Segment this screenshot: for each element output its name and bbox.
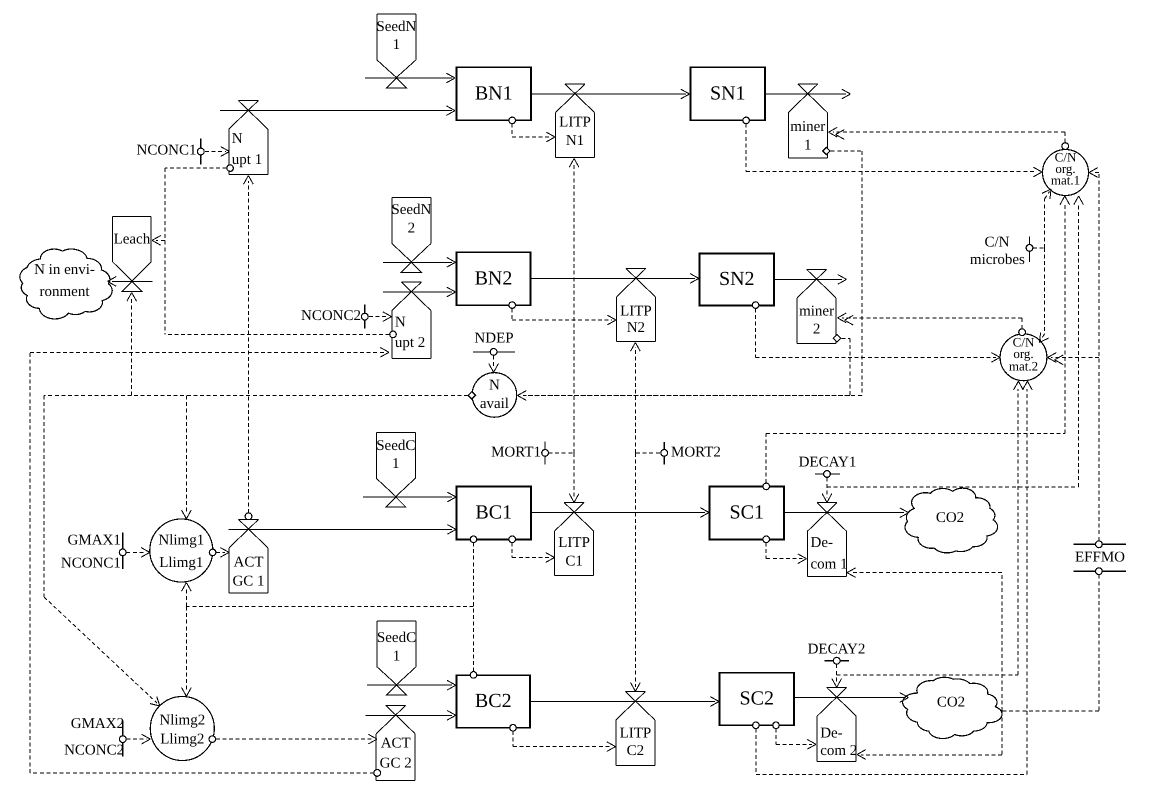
svg-text:C2: C2 <box>627 743 645 759</box>
svg-text:De-: De- <box>811 535 834 551</box>
connector SC2 to C/N org.mat.2 <box>756 381 1032 774</box>
source hopper SeedC 1 (lower) <box>377 621 416 695</box>
converter C/N org.mat.1 <box>1043 143 1089 196</box>
source hopper SeedN 1 <box>376 14 416 88</box>
svg-text:upt 2: upt 2 <box>395 335 425 351</box>
connector EFFMO to De-com valves trunk <box>1002 575 1099 711</box>
connector Nlimg2 to ACT GC 2 <box>216 734 377 744</box>
svg-text:LITP: LITP <box>620 303 652 319</box>
svg-text:LITP: LITP <box>620 725 652 741</box>
svg-text:com 2: com 2 <box>820 743 857 759</box>
connector BC2 to LITP C2 <box>513 731 616 751</box>
flow pipe SC2 to CO2 <box>794 693 909 703</box>
connector BN1 to LITP N1 <box>512 124 555 142</box>
svg-text:C1: C1 <box>565 553 583 569</box>
connector DECAY1 to C/N org.mat.1 <box>827 196 1083 487</box>
connector ACT GC 2 to N upt 2 <box>30 347 389 772</box>
flow regulator LITP N1 <box>556 84 595 158</box>
flow regulator De-com 2 <box>817 688 857 762</box>
node BC1 output point b <box>509 536 516 543</box>
flow pipe SN1 to miner 1 out <box>765 89 851 99</box>
svg-text:BC2: BC2 <box>475 690 512 712</box>
connector C/N org.mat.1 to miner 1 <box>829 127 1065 142</box>
svg-text:MORT1: MORT1 <box>491 445 541 461</box>
svg-text:NCONC1: NCONC1 <box>136 142 196 158</box>
flow regulator miner 2 <box>797 269 836 343</box>
node SN2 output point <box>752 302 759 309</box>
connector miner 2 to N avail <box>518 338 850 400</box>
flow pipe SeedN1 to BN1 <box>365 73 455 83</box>
svg-text:LITP: LITP <box>558 535 590 551</box>
parameter MORT2 <box>661 442 721 465</box>
svg-text:N: N <box>232 131 243 147</box>
node ACT GC 2 output point <box>374 770 381 777</box>
node BC1 output point a <box>470 536 477 543</box>
svg-text:1: 1 <box>393 648 401 664</box>
svg-text:Nlimg1: Nlimg1 <box>158 533 204 549</box>
connector SC2 to De-com 2 <box>776 729 816 750</box>
connector BC1 to LITP C1 <box>512 543 554 563</box>
svg-text:2: 2 <box>408 220 416 236</box>
svg-text:SeedC: SeedC <box>376 438 415 454</box>
node BC2 top output point <box>470 672 477 679</box>
connector MORT2 to LITP C2 <box>631 453 641 691</box>
stock BC2 <box>457 675 531 728</box>
svg-text:1: 1 <box>392 456 400 472</box>
svg-text:CO2: CO2 <box>937 694 965 710</box>
node BN2 output point <box>509 302 516 309</box>
flow pipe SeedC1 to BC2 <box>367 680 456 690</box>
svg-text:N1: N1 <box>566 133 584 149</box>
node BN1 output point <box>509 117 516 124</box>
svg-text:miner: miner <box>790 119 825 135</box>
svg-text:DECAY1: DECAY1 <box>799 455 857 471</box>
svg-text:NCONC1: NCONC1 <box>61 555 121 571</box>
svg-text:ACT: ACT <box>234 554 264 570</box>
flow pipe N upt 2 to BN2 <box>383 287 455 297</box>
svg-text:avail: avail <box>480 396 509 412</box>
connector SN1 to C/N org.mat.1 <box>746 124 1042 177</box>
svg-text:NDEP: NDEP <box>474 330 513 346</box>
cloud source-sink N in environment <box>20 249 112 319</box>
flow regulator De-com 1 <box>808 503 848 577</box>
cloud sink CO2 (upper) <box>905 488 998 553</box>
sink hopper Leach <box>113 216 151 291</box>
stock SN2 <box>700 253 775 305</box>
connector NDEP to N avail <box>489 355 499 372</box>
connector DECAY1 to valve <box>822 478 832 503</box>
node Nlimg2 output point <box>209 736 216 743</box>
svg-text:com 1: com 1 <box>811 557 848 573</box>
connector into Leach arrow <box>152 236 165 246</box>
parameter NCONC1 (upper) <box>136 139 204 165</box>
svg-text:De-: De- <box>820 725 843 741</box>
flow regulator LITP C1 <box>555 503 594 576</box>
node SC1 top output point <box>763 483 770 490</box>
node SC1 bottom output point <box>763 536 770 543</box>
node Nlimg1 output point <box>209 549 216 556</box>
converter Nlimg2 Llimg2 <box>150 697 214 761</box>
svg-text:BC1: BC1 <box>475 501 512 523</box>
node ACT GC 1 valve output point <box>245 513 252 520</box>
node N avail output diamond <box>468 392 475 399</box>
stock SC1 <box>710 486 785 539</box>
connector C/N microbes to C/N org.mat.1 <box>1042 189 1051 248</box>
svg-text:MORT2: MORT2 <box>671 445 721 461</box>
connector MORT1 stub <box>549 452 575 454</box>
svg-text:SeedC: SeedC <box>377 630 416 646</box>
svg-text:1: 1 <box>804 137 812 153</box>
parameter DECAY1 <box>799 455 857 478</box>
svg-text:BN1: BN1 <box>475 82 513 104</box>
connector SC1 to De-com 1 <box>766 543 806 564</box>
flow pipe BN2 to SN2 <box>531 274 699 284</box>
converter C/N org.mat.2 <box>1000 329 1047 381</box>
node miner 2 output diamond <box>833 335 840 342</box>
svg-text:N: N <box>395 314 406 330</box>
connector EFFMO to C/N org.mat.1 <box>1089 168 1099 541</box>
flow regulator ACT GC 2 <box>376 705 415 780</box>
svg-text:SC2: SC2 <box>740 688 774 710</box>
flow pipe BC1 to SC1 <box>531 508 709 518</box>
parameter MORT1 <box>491 442 548 465</box>
flow regulator miner 1 <box>788 84 827 158</box>
flow regulator LITP C2 <box>616 692 655 766</box>
svg-text:mat.1: mat.1 <box>1051 172 1080 187</box>
parameter C/N microbes <box>970 234 1033 268</box>
svg-text:GMAX1: GMAX1 <box>68 532 121 548</box>
node SC2 output point a <box>753 722 760 729</box>
converter Nlimg1 Llimg1 <box>150 519 213 582</box>
svg-text:SeedN: SeedN <box>376 19 416 35</box>
svg-text:GC 1: GC 1 <box>232 573 264 589</box>
svg-text:1: 1 <box>393 37 401 53</box>
svg-text:BN2: BN2 <box>475 267 513 289</box>
connector EFFMO to De-com 1 <box>847 568 1002 711</box>
flow regulator N upt 1 <box>229 101 268 175</box>
node BC2 bottom output point <box>510 725 517 732</box>
parameter GMAX2 NCONC2 <box>64 716 126 759</box>
svg-text:SeedN: SeedN <box>391 202 431 218</box>
connector GMAX1/NCONC1 to Nlimg1 <box>126 548 150 558</box>
svg-text:SN2: SN2 <box>719 268 755 290</box>
converter N avail <box>472 373 517 418</box>
svg-text:SC1: SC1 <box>730 501 764 523</box>
svg-text:N: N <box>489 377 500 393</box>
cloud sink CO2 (lower) <box>903 677 1002 738</box>
svg-text:GC 2: GC 2 <box>380 756 412 772</box>
svg-text:ACT: ACT <box>381 736 411 752</box>
connector N avail to Leach valve <box>127 293 137 396</box>
connector NCONC2 to N upt 2 <box>369 312 392 322</box>
flow regulator ACT GC 1 <box>229 519 268 593</box>
connector BC2 to Nlimg2 <box>182 607 474 697</box>
svg-text:N2: N2 <box>627 320 645 336</box>
svg-text:2: 2 <box>813 321 821 337</box>
flow pipe ACT GC 2 to BC2 <box>366 710 456 720</box>
connector MORT1 to LITP C1 <box>569 453 579 503</box>
connector N avail to Nlimg1 <box>182 396 192 519</box>
parameter EFFMO <box>1073 541 1126 575</box>
stock SN1 <box>691 67 766 120</box>
flow pipe Leach to environment <box>108 277 153 287</box>
connector C/N microbes to C/N org.mat.2 <box>1040 248 1049 343</box>
svg-text:microbes: microbes <box>970 252 1025 268</box>
node N upt 1 output point <box>227 165 234 172</box>
stock SC2 <box>719 673 794 726</box>
svg-text:Nlimg2: Nlimg2 <box>159 713 205 729</box>
svg-text:LITP: LITP <box>559 114 591 130</box>
svg-text:EFFMO: EFFMO <box>1075 549 1125 565</box>
connector DECAY2 to valve <box>832 664 842 687</box>
svg-text:upt 1: upt 1 <box>232 152 262 168</box>
node SC2 output point b <box>773 722 780 729</box>
flow pipe N upt 1 to BN1 <box>220 106 455 116</box>
connector ACT GC 1 to N upt 1 <box>244 176 254 513</box>
svg-text:N in envi-: N in envi- <box>34 262 95 278</box>
node SN1 output point <box>743 117 750 124</box>
flow regulator N upt 2 <box>392 282 431 359</box>
connector BN2 to LITP N2 <box>512 308 616 325</box>
stock BC1 <box>457 486 532 539</box>
connector MORT1 to LITP N1 <box>569 159 579 453</box>
parameter NCONC2 (upper) <box>301 305 368 329</box>
source hopper SeedC 1 (upper) <box>376 432 415 507</box>
connector SC1 to C/N org.mat.1 <box>766 196 1069 483</box>
svg-text:Leach: Leach <box>114 232 151 248</box>
svg-text:GMAX2: GMAX2 <box>71 716 124 732</box>
source hopper SeedN 2 <box>391 198 431 273</box>
connector C/N microbes stub <box>1033 247 1045 249</box>
parameter GMAX1 NCONC1 <box>61 532 126 571</box>
svg-text:ronment: ronment <box>40 284 91 300</box>
parameter NDEP <box>473 330 515 355</box>
node N upt 2 output point <box>390 331 397 338</box>
parameter DECAY2 <box>808 641 866 664</box>
flow pipe BN1 to SN1 <box>531 89 690 99</box>
flow pipe SeedC1 to BC1 <box>363 492 456 502</box>
flow pipe ACT GC 1 to BC1 <box>229 525 456 535</box>
svg-text:SN1: SN1 <box>710 82 746 104</box>
connector SN2 to C/N org.mat.2 <box>756 308 1000 362</box>
flow pipe BC2 to SC2 <box>530 697 719 707</box>
svg-text:C/N: C/N <box>984 234 1009 250</box>
connector N upt 1 to Leach (down left) <box>165 168 227 334</box>
flow pipe SeedN2 to BN2 <box>383 257 455 267</box>
connector NCONC1 to N upt 1 <box>205 147 230 157</box>
connector EFFMO to C/N org.mat.2 <box>1048 353 1099 365</box>
connector Nlimg1 to ACT GC 1 <box>216 548 229 558</box>
svg-text:miner: miner <box>799 303 834 319</box>
svg-text:Llimg2: Llimg2 <box>160 731 204 747</box>
flow pipe SC1 to CO2 <box>784 508 909 518</box>
connector BC1 to Nlimg1 <box>182 543 474 607</box>
connector N avail diagonal to Nlimg2 <box>44 597 160 706</box>
stock BN1 <box>457 67 532 120</box>
svg-text:NCONC2: NCONC2 <box>301 308 361 324</box>
svg-text:CO2: CO2 <box>936 510 964 526</box>
svg-text:mat.2: mat.2 <box>1009 358 1038 373</box>
connector N avail to Nlimg1/Nlimg2 trunk <box>44 396 468 598</box>
connector miner 1 to N avail <box>523 151 862 396</box>
connector DECAY2 to C/N org.mat.2 <box>837 381 1024 675</box>
connector MORT2 stub <box>636 452 661 454</box>
svg-text:DECAY2: DECAY2 <box>808 641 866 657</box>
svg-text:NCONC2: NCONC2 <box>64 742 124 758</box>
flow pipe SN2 to miner 2 out <box>774 275 847 285</box>
connector GMAX2/NCONC2 to Nlimg2 <box>126 734 150 744</box>
svg-text:Llimg1: Llimg1 <box>159 555 203 571</box>
connector EFFMO to De-com 2 <box>857 711 1002 759</box>
connector N upt 2 to Leach (horizontal) <box>165 333 390 335</box>
connector MORT2 to LITP N2 <box>631 343 641 453</box>
flow regulator LITP N2 <box>616 268 655 341</box>
connector C/N org.mat.2 to miner 2 <box>838 313 1023 329</box>
node miner 1 output diamond <box>823 147 830 154</box>
stock BN2 <box>457 252 531 305</box>
